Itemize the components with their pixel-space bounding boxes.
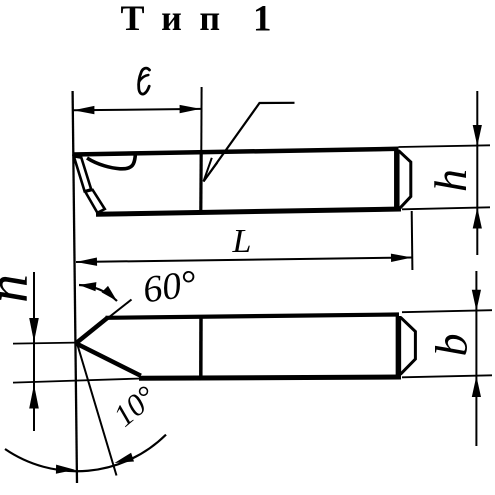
svg-text:1: 1	[253, 0, 272, 40]
svg-text:Тип: Тип	[121, 0, 238, 38]
svg-text:h: h	[425, 169, 476, 192]
svg-text:b: b	[426, 334, 477, 357]
svg-text:n: n	[0, 274, 40, 303]
svg-text:L: L	[232, 223, 252, 260]
svg-text:60°: 60°	[140, 262, 199, 311]
